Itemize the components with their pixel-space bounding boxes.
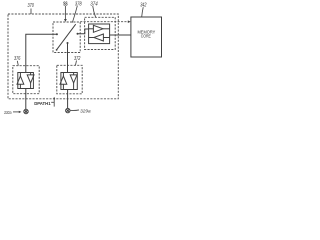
svg-text:329a: 329a — [80, 108, 91, 113]
svg-text:378: 378 — [75, 1, 82, 7]
svg-text:342: 342 — [140, 2, 146, 8]
svg-text:372: 372 — [74, 56, 81, 62]
svg-text:370: 370 — [28, 3, 34, 9]
svg-text:CORE: CORE — [141, 34, 151, 39]
svg-text:SS: SS — [63, 1, 68, 7]
svg-text:374: 374 — [90, 1, 98, 7]
svg-text:330a: 330a — [4, 110, 12, 115]
svg-text:DPATH1: DPATH1 — [34, 101, 51, 106]
svg-text:376: 376 — [14, 56, 21, 62]
